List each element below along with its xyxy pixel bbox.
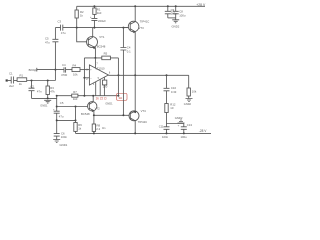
capacitor C8 100u xyxy=(170,6,186,18)
svg-text:C13: C13 xyxy=(187,123,193,127)
node junction R6 stub top xyxy=(75,106,77,108)
node junction zobel output xyxy=(166,74,168,76)
svg-text:VT3: VT3 xyxy=(139,26,145,30)
svg-text:0.1: 0.1 xyxy=(127,50,131,54)
wire pin2 xyxy=(84,77,89,79)
svg-text:47k: 47k xyxy=(50,90,55,94)
svg-text:100u: 100u xyxy=(181,135,188,139)
ground GND1 input xyxy=(40,100,51,107)
capacitor C4 input xyxy=(37,63,68,77)
svg-text:47u: 47u xyxy=(59,114,64,118)
svg-text:C3: C3 xyxy=(58,20,62,24)
capacitor C2 xyxy=(29,81,43,99)
ground GND2 load xyxy=(184,99,193,106)
svg-text:R7: R7 xyxy=(73,90,77,94)
ground GND2 bottom xyxy=(175,116,185,123)
svg-text:GND2: GND2 xyxy=(184,102,192,106)
resistor R2 xyxy=(75,6,84,27)
node input net label xyxy=(29,68,38,72)
node junction R4 bottom xyxy=(93,27,95,29)
capacitor C4b 0.1 column xyxy=(120,28,131,116)
svg-text:GND1: GND1 xyxy=(40,104,48,108)
ground GND2 top xyxy=(168,18,180,29)
resistor R4 input series xyxy=(66,64,90,77)
svg-text:100n: 100n xyxy=(61,135,68,139)
svg-text:R1: R1 xyxy=(20,73,24,77)
resistor R6 xyxy=(74,107,82,134)
resistor R5 xyxy=(102,52,111,60)
capacitor C3 xyxy=(58,20,67,35)
node junction C5 column bus xyxy=(56,95,58,97)
capacitor C5 xyxy=(45,28,58,81)
svg-text:2.2: 2.2 xyxy=(96,127,100,131)
wire bottom negative rail xyxy=(76,132,212,134)
node text small annotation xyxy=(102,127,105,130)
resistor R4 xyxy=(93,6,102,18)
svg-text:C2: C2 xyxy=(30,85,34,89)
svg-text:0m: 0m xyxy=(102,127,105,130)
wire top positive rail xyxy=(77,5,205,7)
transistor VT4 TIP42C xyxy=(93,75,147,133)
svg-text:GND2: GND2 xyxy=(175,116,183,120)
svg-text:1k0: 1k0 xyxy=(73,97,78,101)
svg-text:C1: C1 xyxy=(9,72,13,76)
node junction R8 bottom rail xyxy=(93,132,95,134)
node junction C8 top on rail xyxy=(175,5,177,7)
wire op-amp feedback top xyxy=(84,57,118,59)
node junction VT4 collector rail xyxy=(134,132,136,134)
red watermark annotation xyxy=(96,93,128,100)
resistor R11 load xyxy=(187,75,197,98)
node junction R3 top xyxy=(47,80,49,82)
svg-text:+28 V: +28 V xyxy=(196,3,206,7)
capacitor C7 220u xyxy=(90,15,106,28)
capacitor C9 100n xyxy=(165,6,177,18)
capacitor C11 100n xyxy=(159,124,170,140)
wire pin4 stub xyxy=(95,82,97,96)
svg-text:R4: R4 xyxy=(73,64,77,68)
transistor VT3 TIP41C xyxy=(123,6,149,75)
node junction VT2 collector bus xyxy=(92,95,94,97)
svg-text:GND1: GND1 xyxy=(105,101,113,105)
svg-text:VT2: VT2 xyxy=(95,107,101,111)
node junction R2 bottom xyxy=(76,27,78,29)
wire pin5 stub xyxy=(99,79,101,95)
svg-text:10k: 10k xyxy=(192,90,197,94)
capacitor C13 100u xyxy=(178,123,193,139)
transistor VT1 BC548 xyxy=(77,28,106,58)
capacitor C5b 47u xyxy=(53,96,64,121)
svg-text:100u: 100u xyxy=(179,13,186,17)
svg-text:1k 22 Ω: 1k 22 Ω xyxy=(96,96,108,100)
svg-text:TIP42C: TIP42C xyxy=(138,120,147,124)
resistor R8 xyxy=(92,124,100,134)
wire mid bus xyxy=(55,27,130,29)
node -28 V supply label xyxy=(199,129,207,133)
svg-text:1k0: 1k0 xyxy=(97,11,102,15)
svg-text:100n: 100n xyxy=(162,135,169,139)
svg-text:C11: C11 xyxy=(159,124,164,128)
resistor R7 gain xyxy=(72,90,78,101)
svg-text:TIP41C: TIP41C xyxy=(140,19,149,23)
node junction C9 top on rail xyxy=(167,5,169,7)
node junction inverting vertical bus xyxy=(83,95,85,97)
node junction output column top xyxy=(117,74,119,76)
node junction VT1 emitter feedback xyxy=(94,57,96,59)
svg-text:100: 100 xyxy=(103,85,108,89)
op-amp U1 xyxy=(86,62,111,86)
resistor R3 xyxy=(46,81,55,99)
wire inverting node vertical xyxy=(83,58,85,96)
resistor R12 zobel xyxy=(165,102,176,123)
wire pin7 stub xyxy=(94,58,96,68)
wire output column xyxy=(117,58,119,96)
svg-text:VT4: VT4 xyxy=(141,109,147,113)
svg-text:C5: C5 xyxy=(60,101,64,105)
node GND1 text mid xyxy=(105,101,113,105)
node junction C13 rail xyxy=(183,132,185,134)
resistor R1 xyxy=(14,73,56,86)
wire ground bus xyxy=(32,96,119,99)
svg-text:4700: 4700 xyxy=(61,73,68,77)
node junction VT3 emitter output xyxy=(134,74,136,76)
svg-text:220uF: 220uF xyxy=(98,19,106,23)
node junction VT4 base xyxy=(122,114,124,116)
svg-text:GND1: GND1 xyxy=(60,143,68,147)
capacitor C6 100n xyxy=(54,120,68,139)
wire VT2 base line xyxy=(57,106,90,108)
transistor VT2 BC548 xyxy=(81,96,100,124)
wire bottom decoupling bus xyxy=(167,123,184,125)
wire output main xyxy=(108,74,188,76)
input terminal XS1 xyxy=(6,79,12,81)
svg-text:0.33: 0.33 xyxy=(171,90,177,94)
svg-text:2u2: 2u2 xyxy=(9,84,14,88)
svg-text:C4: C4 xyxy=(62,63,66,67)
svg-text:LT1010: LT1010 xyxy=(96,66,105,70)
node +28 V supply label xyxy=(196,3,206,7)
node junction C4 column top xyxy=(122,27,124,29)
capacitor C1 xyxy=(9,72,14,89)
svg-text:47n: 47n xyxy=(37,89,42,93)
capacitor C10 zobel xyxy=(164,75,177,103)
node junction input node xyxy=(31,80,33,82)
ground GND1 bottom xyxy=(53,140,68,148)
capacitor C6b comp 100 xyxy=(103,77,108,96)
svg-text:GND2: GND2 xyxy=(172,24,180,28)
node junction VT3 collector on rail xyxy=(134,5,136,7)
svg-text:47u: 47u xyxy=(61,31,66,35)
svg-text:10k: 10k xyxy=(73,73,78,77)
svg-text:VT1: VT1 xyxy=(99,35,105,39)
svg-text:BC548: BC548 xyxy=(97,45,106,49)
svg-text:BC548: BC548 xyxy=(81,112,90,116)
svg-text:10: 10 xyxy=(170,106,174,110)
svg-text:R5: R5 xyxy=(104,52,108,56)
wire R6 top link xyxy=(56,119,77,121)
svg-text:-28 V: -28 V xyxy=(199,129,207,133)
svg-text:47u: 47u xyxy=(45,41,50,45)
node junction R3 bus xyxy=(47,97,49,99)
node junction C11 rail xyxy=(166,132,168,134)
node junction output column bus xyxy=(117,95,119,97)
node junction R4 top on rail xyxy=(93,5,95,7)
